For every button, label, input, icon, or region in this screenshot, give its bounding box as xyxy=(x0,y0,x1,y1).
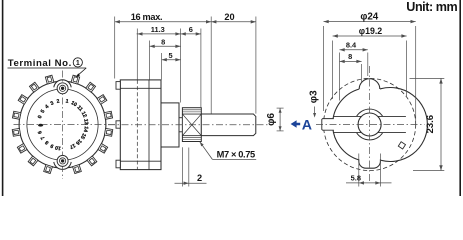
front view: shaft end circle xyxy=(358,113,381,136)
svg-text:A: A xyxy=(302,117,312,133)
left view: vertical centerline xyxy=(62,71,64,180)
front view: rotor slot lower chord left xyxy=(333,132,361,134)
arrow 8.4 right xyxy=(363,48,368,51)
leader underline M7 xyxy=(212,158,256,160)
terminal lug at 16 deg xyxy=(71,75,80,84)
front view: phi3 locating pin xyxy=(322,119,334,131)
ext line phi24 right xyxy=(415,26,417,122)
view direction arrow A (blue) xyxy=(291,120,301,128)
arrow 6 right xyxy=(196,32,201,35)
arrow phi3 xyxy=(313,113,316,118)
side view: inner vertical line xyxy=(148,80,150,170)
dim line 8.4 xyxy=(340,49,368,51)
thread cross diagonal 2 xyxy=(182,114,201,136)
ext line phi19.2 left xyxy=(332,41,334,100)
ext line 2 left xyxy=(182,147,184,186)
dim line 5.8 xyxy=(346,182,392,184)
side view: shaft xyxy=(201,114,256,136)
left view: top rivet xyxy=(57,83,68,94)
svg-text:16 max.: 16 max. xyxy=(131,12,163,22)
left view: bottom dome bump xyxy=(54,162,71,169)
side view: dashed internal line xyxy=(136,80,138,170)
arrow 5.8 right (internal) xyxy=(375,181,380,184)
svg-text:φ3: φ3 xyxy=(309,90,320,103)
ext line 5.8 left xyxy=(358,154,360,187)
dim line 2 xyxy=(175,182,207,184)
ext line 16max/20 boundary xyxy=(210,17,212,114)
svg-text:φ19.2: φ19.2 xyxy=(359,26,383,36)
terminal lug at -99.5 deg xyxy=(12,128,20,136)
terminal lug at -37 deg xyxy=(29,82,39,92)
side view: lower inner line xyxy=(120,160,161,162)
arrow 16max right xyxy=(206,20,211,23)
svg-text:11.3: 11.3 xyxy=(151,25,165,34)
arrow 5 right xyxy=(175,58,180,61)
label underline xyxy=(8,67,87,69)
ext line 8 left xyxy=(149,41,151,80)
terminal lug at -16 deg xyxy=(45,75,54,84)
arrow 11.3 left xyxy=(137,32,142,35)
ext line 2 right xyxy=(188,148,190,187)
terminal lug at -141 deg xyxy=(28,156,38,166)
bushing thread cross box xyxy=(182,114,201,136)
ext line phi19.2 right xyxy=(406,41,408,97)
dim line 11.3/6 xyxy=(137,33,201,35)
arrow 23.6 bottom xyxy=(439,165,442,170)
side view: horizontal centerline xyxy=(108,124,268,126)
arrow 11.3 right xyxy=(175,32,180,35)
side view: mounting flange xyxy=(161,103,179,147)
ext line 23.6 top xyxy=(410,77,445,79)
arrow 8.4 left xyxy=(340,48,345,51)
circled terminal number 1 xyxy=(73,58,82,67)
svg-text:φ6: φ6 xyxy=(266,113,277,126)
terminal lug at 37 deg xyxy=(86,82,96,92)
dim line phi6 xyxy=(279,108,281,131)
left view: switch body outer circle xyxy=(19,81,106,168)
front view: rotor slot upper chord left xyxy=(333,115,361,117)
arrow phi19.2 left xyxy=(333,34,338,37)
arrow 6 left xyxy=(181,32,186,35)
arrow 5 left xyxy=(162,58,167,61)
ext line 16max left xyxy=(114,17,116,79)
svg-text:8: 8 xyxy=(161,38,165,47)
leader line M7 xyxy=(200,142,213,160)
arrow 8 front right xyxy=(356,60,361,63)
ext line 11.3 left xyxy=(136,29,138,80)
svg-text:M7 × 0.75: M7 × 0.75 xyxy=(217,149,255,159)
front view: bottom tab bump xyxy=(359,159,381,168)
arrow phi6 bottom xyxy=(279,126,282,131)
arrow dim 2 xyxy=(184,182,189,185)
terminal lug at -57.5 deg xyxy=(18,95,28,105)
terminal lug at -78.5 deg xyxy=(12,111,21,119)
arrow 23.6 top xyxy=(439,78,442,83)
svg-text:13: 13 xyxy=(82,119,89,126)
front view: horizontal centerline xyxy=(316,124,425,126)
svg-text:φ24: φ24 xyxy=(360,11,378,22)
front view: phi24 max diameter circle (dashed) xyxy=(324,78,416,170)
dial zero-position pointer dot xyxy=(38,124,43,127)
ext line bushing end xyxy=(200,29,202,108)
ext line 8.4/8 left xyxy=(339,53,341,101)
svg-text:8: 8 xyxy=(348,52,352,61)
terminal lug at 162 deg xyxy=(73,165,82,174)
arrow 8 right xyxy=(175,45,180,48)
side view: bottom left terminal tab xyxy=(116,160,120,168)
left view: bottom rivet xyxy=(57,155,68,166)
side view: neck lower line xyxy=(179,131,182,133)
bushing thread line xyxy=(182,136,201,138)
svg-text:20: 20 xyxy=(224,12,234,22)
svg-text:2: 2 xyxy=(197,173,202,183)
dim line 5 xyxy=(162,59,181,61)
terminal lug at 99.5 deg xyxy=(104,128,112,136)
svg-text:23.6: 23.6 xyxy=(425,115,436,134)
svg-text:8.4: 8.4 xyxy=(346,41,357,50)
bushing thread line xyxy=(182,138,201,140)
arrow 8 left xyxy=(150,45,155,48)
svg-text:6: 6 xyxy=(189,25,193,34)
right table border xyxy=(459,0,461,196)
svg-text:5.8: 5.8 xyxy=(351,174,361,183)
front view: center boss upper arc xyxy=(357,109,383,116)
ext line phi24 left xyxy=(323,26,325,111)
side view: top left terminal tab xyxy=(116,82,120,90)
arrow phi19.2 right xyxy=(401,34,406,37)
arrow 20 right xyxy=(251,20,256,23)
arrow phi24 left xyxy=(324,20,329,23)
terminal lug at -120.5 deg xyxy=(17,144,27,154)
terminal lug at 120.5 deg xyxy=(98,144,108,154)
arrow phi24 right xyxy=(411,20,416,23)
dim line 8 (front) xyxy=(340,60,362,62)
front view: bottom-right lug xyxy=(398,142,405,149)
arrow 20 left xyxy=(211,20,216,23)
svg-text:Unit: mm: Unit: mm xyxy=(406,0,457,14)
leader arrowhead M7 xyxy=(200,142,204,147)
leader to terminal 1 xyxy=(77,68,86,76)
leader line phi3 xyxy=(314,107,316,116)
front view: vertical centerline xyxy=(369,66,371,183)
left view: inner circle xyxy=(27,89,98,160)
dim line phi24 xyxy=(324,21,416,23)
side view: switch body xyxy=(120,80,161,170)
ext line 5.8 right xyxy=(380,154,382,187)
dim line 8 xyxy=(150,45,181,47)
left table border xyxy=(2,0,4,196)
terminal lug at 57.5 deg xyxy=(97,95,107,105)
ext line 8 right xyxy=(361,64,363,82)
arrow phi6 top xyxy=(279,108,282,113)
svg-text:5: 5 xyxy=(169,51,173,60)
svg-text:Terminal No.: Terminal No. xyxy=(8,58,72,69)
front view: center boss lower arc xyxy=(357,133,383,140)
bushing thread line xyxy=(182,109,201,111)
terminal lug at 141 deg xyxy=(87,156,97,166)
leader arrowhead xyxy=(76,73,80,77)
side view: middle left terminal tab xyxy=(116,121,120,128)
dim line 23.6 xyxy=(440,78,442,170)
front view: rotor slot upper chord right xyxy=(378,115,406,117)
dim line 16max/20 xyxy=(115,21,256,23)
terminal lug at 78.5 deg xyxy=(104,111,113,119)
svg-text:1: 1 xyxy=(76,60,80,67)
front view: rotor slot lower chord right xyxy=(378,132,406,134)
bushing thread line xyxy=(182,111,201,113)
ext line 8.4 right xyxy=(367,53,369,77)
side view: neck upper line xyxy=(179,117,182,119)
dim line phi19.2 xyxy=(333,35,407,37)
ext tick phi6 bottom xyxy=(277,130,284,132)
side view: upper inner line xyxy=(120,87,161,89)
left view: horizontal centerline xyxy=(14,124,118,126)
thread cross diagonal 1 xyxy=(182,114,201,136)
side view: threaded bushing outline xyxy=(182,108,201,142)
terminal lug at -162 deg xyxy=(44,165,53,174)
left view: top dome bump xyxy=(54,80,71,87)
front view: phi19.2 body circle xyxy=(333,87,428,161)
ext line flange face xyxy=(180,29,182,103)
arrow 5.8 left (internal) xyxy=(359,181,364,184)
front view: top dome bump xyxy=(359,79,380,89)
arrow 16max left xyxy=(115,20,120,23)
ext line 23.6 bottom xyxy=(413,170,444,172)
ext line shaft tip xyxy=(255,17,257,114)
arrow 8 front left xyxy=(340,60,345,63)
ext tick phi6 top xyxy=(277,107,284,109)
ext line 5 left xyxy=(161,53,163,80)
